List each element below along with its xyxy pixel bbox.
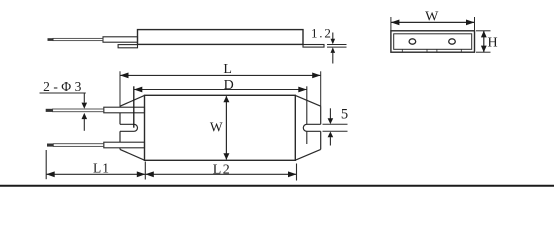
svg-text:L1: L1 [93, 161, 110, 176]
svg-text:L: L [223, 62, 232, 77]
svg-text:W: W [210, 119, 223, 134]
svg-text:D: D [224, 78, 234, 93]
svg-text:1.2: 1.2 [311, 26, 333, 41]
svg-text:2-Φ3: 2-Φ3 [43, 79, 85, 94]
svg-text:L2: L2 [213, 162, 232, 177]
svg-text:5: 5 [341, 107, 348, 123]
svg-text:H: H [488, 35, 498, 50]
svg-text:W: W [425, 9, 439, 24]
